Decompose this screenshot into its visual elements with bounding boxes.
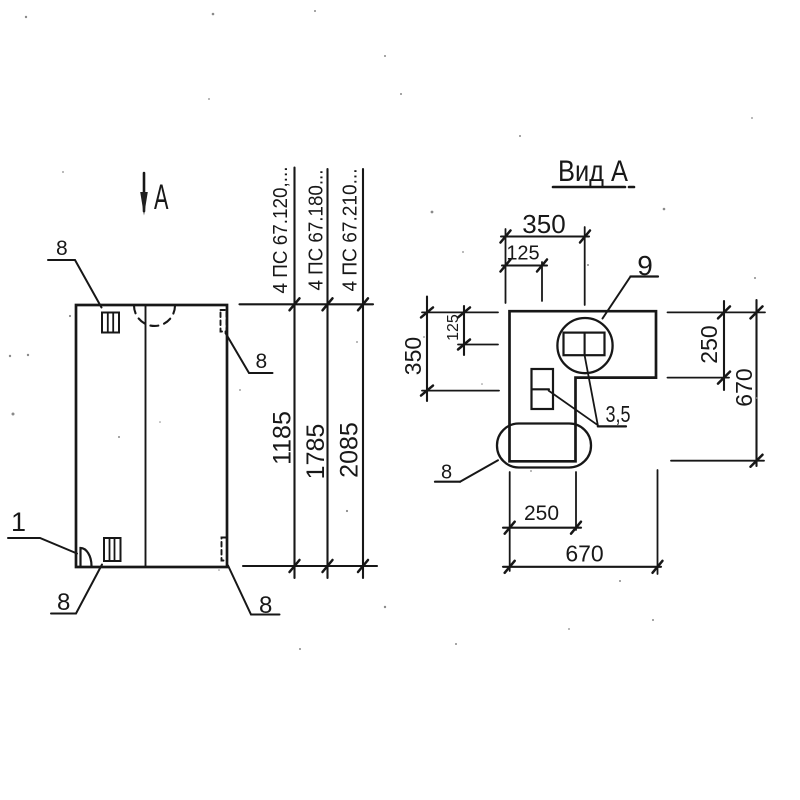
leader label 8 top-left xyxy=(48,237,102,308)
svg-text:2085: 2085 xyxy=(336,422,364,478)
bottom extension lines view A xyxy=(509,472,511,571)
scan speckles xyxy=(9,10,758,650)
svg-text:1: 1 xyxy=(11,507,26,537)
leader label 3,5 xyxy=(549,355,631,427)
leader label 8 top-right xyxy=(226,333,273,373)
svg-text:8: 8 xyxy=(57,589,70,616)
loop detail circle 9 xyxy=(557,318,612,373)
dashed opening arc xyxy=(134,306,175,326)
svg-text:125: 125 xyxy=(506,243,539,265)
stadium opening 8 xyxy=(497,424,591,468)
svg-text:1185: 1185 xyxy=(269,411,297,465)
dim line variant 3 xyxy=(362,169,364,578)
svg-text:3,5: 3,5 xyxy=(606,401,631,427)
panel outline xyxy=(76,305,227,567)
extension line top xyxy=(240,303,374,305)
svg-text:1785: 1785 xyxy=(302,424,330,480)
svg-text:350: 350 xyxy=(522,209,565,239)
svg-text:8: 8 xyxy=(56,237,68,260)
svg-text:250: 250 xyxy=(696,325,722,363)
svg-text:670: 670 xyxy=(565,541,603,567)
svg-text:670: 670 xyxy=(731,368,757,406)
dim line variant 2 xyxy=(326,169,328,578)
dim 350 left xyxy=(400,297,433,402)
right extension lines view A xyxy=(668,311,766,313)
left extension lines view A xyxy=(422,311,498,313)
extension line bottom xyxy=(243,565,377,567)
lifting loop top-left xyxy=(102,313,119,333)
loop rect inside circle xyxy=(564,333,605,356)
panel joint line xyxy=(145,306,147,566)
dim 670 bottom xyxy=(503,541,663,573)
leader label 8 bottom-right xyxy=(228,566,280,620)
dim 125 top xyxy=(501,243,548,302)
dashed insert top-right xyxy=(221,310,227,332)
dim 670 right xyxy=(731,300,763,467)
dim line variant 1 xyxy=(293,168,295,579)
corner detail 1 xyxy=(8,507,92,566)
svg-text:125: 125 xyxy=(445,314,462,341)
svg-text:8: 8 xyxy=(441,462,452,484)
tick marks left drawing xyxy=(290,298,369,572)
svg-text:4 ПС 67.120,...: 4 ПС 67.120,... xyxy=(270,167,292,294)
insert rect in column xyxy=(532,369,554,409)
svg-text:250: 250 xyxy=(524,502,559,525)
svg-text:А: А xyxy=(154,179,169,217)
dim 250 bottom xyxy=(503,502,581,534)
lifting loop bottom-left xyxy=(104,538,121,561)
dim 350 top xyxy=(501,209,591,305)
svg-text:Вид А: Вид А xyxy=(558,155,628,188)
view direction arrow A xyxy=(140,173,148,216)
dim 250 right xyxy=(696,301,730,390)
dim 125 left xyxy=(445,306,470,355)
leader label 8 bottom-left xyxy=(51,565,102,617)
title Vid A xyxy=(553,155,634,188)
svg-text:8: 8 xyxy=(256,350,268,373)
leader label 8 right view xyxy=(435,460,498,483)
dashed insert bottom-right xyxy=(222,538,228,561)
svg-text:4 ПС 67.210...: 4 ПС 67.210... xyxy=(340,169,362,292)
leader label 9 xyxy=(603,250,659,319)
svg-text:350: 350 xyxy=(400,337,426,375)
svg-text:8: 8 xyxy=(259,592,272,619)
svg-text:4 ПС 67.180...: 4 ПС 67.180... xyxy=(306,170,328,291)
view A outline xyxy=(510,311,657,461)
